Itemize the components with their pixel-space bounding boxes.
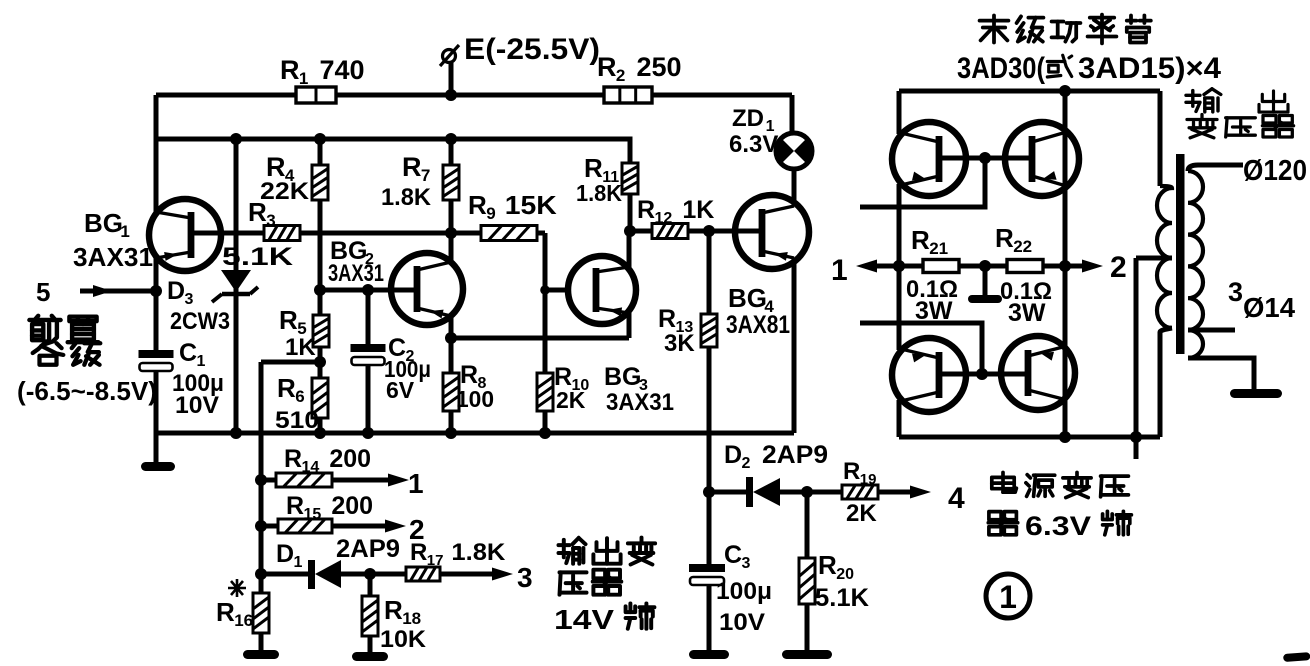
wire base chain y=233	[194, 231, 264, 236]
stray mark bottom right	[1283, 652, 1310, 662]
svg-text:10V: 10V	[175, 392, 219, 419]
svg-text:2AP9: 2AP9	[336, 535, 400, 563]
svg-text:3AX31: 3AX31	[606, 389, 674, 416]
svg-text:1K: 1K	[285, 334, 316, 361]
center tap terminal	[979, 260, 991, 272]
resistor R7	[443, 165, 459, 200]
ground R20	[782, 650, 832, 659]
svg-text:2K: 2K	[556, 387, 586, 413]
svg-text:Ø120: Ø120	[1243, 155, 1307, 187]
svg-text:R: R	[286, 492, 304, 520]
note star	[228, 579, 246, 597]
node input 5	[150, 285, 162, 297]
svg-text:740: 740	[319, 55, 364, 85]
svg-text:2K: 2K	[846, 500, 877, 527]
svg-text:BG: BG	[604, 363, 642, 391]
wire BG3 emitter	[627, 313, 632, 338]
wire left vertical	[154, 139, 159, 212]
svg-text:R: R	[279, 305, 298, 335]
resistor R2	[604, 87, 652, 103]
wire primary center tap	[1136, 256, 1172, 261]
resistor R10	[543, 290, 548, 373]
wire D2 node line	[703, 486, 715, 498]
node E tap junction	[445, 89, 457, 101]
svg-text:3: 3	[1228, 277, 1243, 307]
svg-text:16: 16	[234, 611, 253, 630]
svg-text:5.1K: 5.1K	[222, 243, 293, 271]
resistor R4	[312, 165, 328, 200]
label output transformer 14V tap	[559, 543, 570, 547]
diode D1	[261, 572, 310, 577]
svg-text:100: 100	[456, 386, 494, 412]
wire primary top lead	[1158, 91, 1163, 186]
resistor R13	[707, 231, 712, 314]
wire R7 branch x=451	[449, 139, 454, 165]
svg-text:D: D	[276, 540, 294, 568]
svg-text:6V: 6V	[386, 377, 415, 403]
svg-text:250: 250	[636, 52, 681, 82]
resistor R16	[253, 593, 269, 633]
node E terminal	[449, 63, 454, 95]
svg-text:3AX31: 3AX31	[73, 242, 153, 272]
capacitor C1	[139, 350, 174, 358]
svg-text:6.3V: 6.3V	[729, 131, 778, 158]
svg-text:2: 2	[742, 455, 751, 472]
wire	[156, 93, 792, 98]
resistor R12	[624, 225, 636, 237]
wire primary bottom lead	[1160, 328, 1172, 437]
svg-text:1: 1	[831, 254, 848, 287]
wire lower feed line x=261	[259, 362, 264, 593]
svg-text:7: 7	[421, 166, 430, 185]
svg-text:Ø14: Ø14	[1243, 292, 1295, 323]
wire BG4 emitter down	[792, 258, 797, 433]
transistor BG1	[149, 199, 221, 271]
ground	[154, 433, 159, 463]
svg-text:200: 200	[329, 445, 371, 473]
resistor R3	[264, 226, 300, 241]
svg-text:1: 1	[999, 579, 1017, 615]
svg-text:3W: 3W	[915, 297, 953, 325]
wire power block right vertical	[1063, 91, 1068, 437]
ground R18	[352, 652, 388, 661]
svg-text:R: R	[658, 305, 676, 333]
figure number 1	[986, 574, 1030, 618]
svg-text:1: 1	[299, 69, 308, 88]
svg-text:R: R	[843, 458, 860, 485]
svg-text:21: 21	[929, 239, 948, 258]
transistor Q1 (3AD30)	[892, 122, 966, 196]
svg-text:1.8K: 1.8K	[381, 184, 432, 211]
resistor R8	[443, 373, 459, 411]
wire secondary mid tap	[1188, 328, 1235, 333]
svg-text:2AP9: 2AP9	[762, 441, 828, 469]
wire power block top	[899, 89, 1160, 94]
capacitor C2	[362, 284, 374, 296]
svg-text:200: 200	[331, 492, 373, 520]
svg-text:BG: BG	[728, 283, 767, 313]
svg-text:1.8K: 1.8K	[576, 180, 622, 206]
svg-text:1.8K: 1.8K	[451, 539, 506, 566]
ground R16	[243, 650, 279, 659]
resistor R21	[899, 264, 923, 269]
resistor R11	[622, 163, 638, 194]
svg-text:1K: 1K	[682, 196, 714, 224]
svg-text:510: 510	[275, 407, 319, 434]
svg-text:R: R	[384, 595, 403, 625]
svg-text:3W: 3W	[1008, 299, 1046, 327]
wire R9 to BG3 base	[545, 233, 568, 290]
svg-text:2CW3: 2CW3	[170, 308, 230, 335]
wire secondary top lead	[1188, 165, 1243, 171]
svg-text:3AX31: 3AX31	[328, 260, 384, 287]
svg-text:R: R	[284, 445, 302, 473]
svg-text:19: 19	[860, 471, 877, 488]
resistor R20	[805, 492, 810, 558]
wire stub to lower feed	[261, 360, 320, 365]
svg-text:R: R	[911, 225, 930, 255]
label mains transformer 6.3V tap	[1001, 473, 1005, 493]
svg-text:BG: BG	[84, 208, 123, 238]
svg-text:3K: 3K	[664, 330, 695, 357]
transformer core	[1176, 154, 1185, 354]
svg-text:3AD15)×4: 3AD15)×4	[1078, 52, 1221, 85]
svg-text:1: 1	[408, 468, 424, 499]
svg-text:14: 14	[302, 459, 320, 476]
svg-text:R: R	[468, 190, 487, 220]
svg-text:9: 9	[486, 204, 495, 223]
svg-text:3: 3	[266, 211, 275, 230]
lamp ZD1	[790, 95, 795, 133]
svg-text:3AD30(: 3AD30(	[957, 52, 1045, 85]
svg-text:14V: 14V	[554, 604, 614, 635]
node BG4 base junction	[703, 225, 715, 237]
wire second bus	[156, 95, 630, 163]
resistor R17	[364, 568, 376, 580]
svg-text:15: 15	[304, 506, 322, 523]
svg-text:(-6.5~-8.5V): (-6.5~-8.5V)	[17, 376, 157, 406]
svg-text:6.3V: 6.3V	[1025, 511, 1091, 541]
transistor Q2 (3AD30)	[1005, 122, 1079, 196]
label final power transistors	[980, 19, 1009, 23]
resistor R14	[261, 478, 276, 483]
svg-text:D: D	[724, 441, 742, 469]
svg-text:22K: 22K	[260, 178, 310, 205]
svg-text:10K: 10K	[380, 626, 427, 653]
resistor R1	[296, 87, 336, 103]
node R5/R6 junction	[318, 347, 323, 378]
diode D2	[746, 477, 753, 507]
svg-text:R: R	[995, 223, 1014, 253]
svg-text:20: 20	[836, 566, 854, 583]
svg-text:10V: 10V	[719, 609, 765, 636]
label output transformer	[1186, 94, 1200, 97]
svg-text:6: 6	[295, 387, 304, 406]
svg-text:5.1K: 5.1K	[815, 584, 869, 612]
node 2 arrow	[1065, 264, 1086, 269]
transistor BG4	[735, 195, 809, 269]
wire ground bus	[156, 431, 794, 436]
wire R4 branch x=320	[318, 139, 323, 315]
wire secondary bottom lead	[1188, 358, 1254, 390]
transformer secondary winding	[1188, 171, 1203, 358]
svg-text:R: R	[637, 196, 655, 224]
svg-text:R: R	[584, 153, 603, 183]
resistor R6	[312, 378, 328, 418]
svg-text:22: 22	[1013, 237, 1032, 256]
wire power block left vertical	[897, 91, 902, 134]
wire BG3 collector to R11	[627, 231, 632, 267]
svg-text:D: D	[167, 277, 185, 305]
svg-text:R: R	[460, 361, 478, 389]
capacitor C3	[707, 492, 712, 564]
svg-text:15K: 15K	[505, 190, 557, 220]
svg-text:3: 3	[517, 562, 533, 593]
svg-text:1: 1	[197, 353, 206, 370]
resistor R18	[368, 574, 373, 596]
ground C3	[689, 650, 729, 659]
svg-text:5: 5	[36, 277, 50, 307]
svg-text:R: R	[597, 52, 617, 82]
wire lower base link	[939, 372, 1028, 377]
transistor BG3	[568, 256, 636, 324]
transistor Q4 (3AD30)	[1001, 336, 1075, 410]
transistor Q3 (3AD30)	[892, 338, 966, 412]
svg-text:C: C	[179, 339, 197, 367]
svg-text:100μ: 100μ	[716, 578, 772, 605]
svg-text:3: 3	[742, 555, 751, 572]
svg-text:R: R	[277, 373, 296, 403]
svg-text:R: R	[410, 539, 427, 566]
wire upper base link	[939, 156, 1032, 161]
resistor R19	[801, 486, 813, 498]
diode D3 zener	[234, 139, 239, 433]
transistor BG2	[391, 253, 463, 325]
svg-text:R: R	[280, 55, 300, 85]
svg-text:R: R	[216, 597, 235, 627]
svg-text:4: 4	[948, 482, 965, 515]
svg-text:R: R	[402, 152, 422, 182]
svg-text:1: 1	[294, 554, 303, 571]
svg-text:E(-25.5V): E(-25.5V)	[464, 33, 600, 66]
svg-text:ZD: ZD	[732, 105, 764, 132]
svg-text:12: 12	[655, 210, 673, 227]
svg-text:3AX81: 3AX81	[726, 311, 790, 339]
node 1 arrow	[873, 264, 899, 269]
resistor R5	[313, 315, 329, 347]
svg-text:2: 2	[616, 66, 625, 85]
ground secondary	[1230, 389, 1282, 398]
wire BG2 base	[320, 288, 414, 293]
svg-text:3: 3	[185, 291, 194, 308]
svg-text:17: 17	[427, 552, 444, 569]
svg-text:1: 1	[120, 222, 129, 241]
svg-text:R: R	[818, 550, 837, 580]
svg-text:C: C	[724, 541, 742, 569]
label preamp stages	[36, 316, 39, 319]
resistor R15	[261, 524, 278, 529]
wire power block bottom	[899, 435, 1160, 440]
resistor R9	[481, 226, 537, 241]
svg-text:2: 2	[1110, 251, 1127, 284]
wire BG2 emitter / R8	[449, 316, 454, 338]
resistor R22	[1007, 260, 1043, 273]
transformer primary winding	[1157, 186, 1172, 328]
